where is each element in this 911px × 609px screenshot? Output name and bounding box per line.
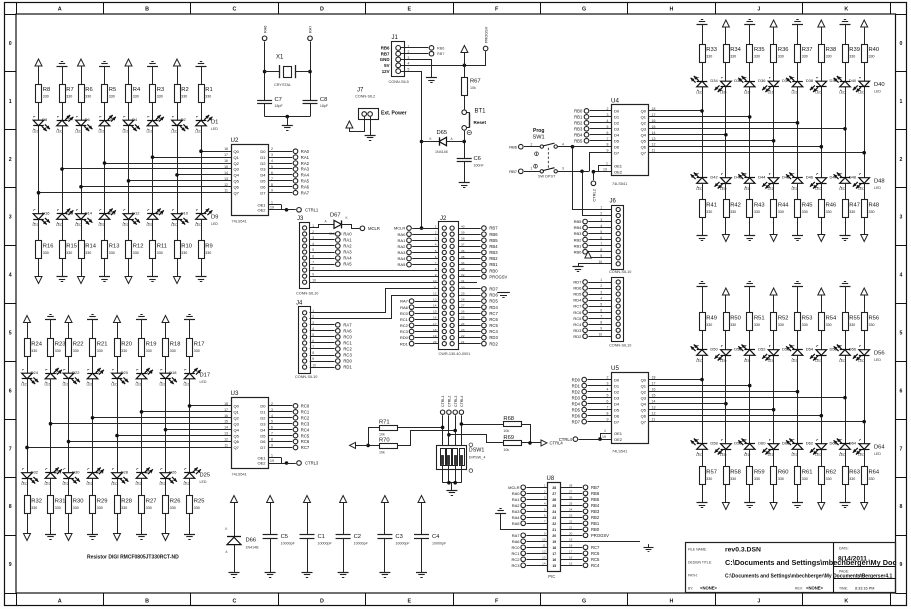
svg-text:7: 7 bbox=[9, 446, 12, 452]
svg-text:D15: D15 bbox=[66, 211, 74, 216]
pin D1 U2 bbox=[260, 153, 309, 160]
svg-text:330: 330 bbox=[194, 506, 200, 510]
ground above R49 bbox=[697, 282, 708, 287]
LED D55 bbox=[830, 345, 851, 364]
svg-text:74LS541: 74LS541 bbox=[232, 473, 247, 477]
wire U8 pin26 RB5 bbox=[561, 496, 600, 502]
wire U8 pin12 RC1 bbox=[511, 550, 547, 556]
svg-text:D52: D52 bbox=[758, 347, 766, 352]
svg-text:LED: LED bbox=[858, 359, 865, 363]
resistor R15 bbox=[60, 241, 77, 259]
svg-text:1: 1 bbox=[435, 225, 437, 229]
svg-text:330: 330 bbox=[133, 95, 139, 99]
ground below R63 bbox=[840, 503, 851, 508]
pin Q2 U4 bbox=[641, 119, 656, 126]
svg-text:D: D bbox=[320, 598, 324, 604]
wire bus U4 Q6 to column 6 bbox=[649, 145, 824, 149]
connector J3 bbox=[296, 216, 318, 295]
wire column bank4 col6 lower bbox=[821, 450, 823, 503]
svg-text:D50: D50 bbox=[710, 347, 718, 352]
connector J5 bbox=[599, 278, 632, 348]
svg-text:PROGSV: PROGSV bbox=[484, 26, 488, 43]
LED D54 bbox=[806, 346, 827, 364]
resistor R5 bbox=[102, 85, 117, 103]
svg-text:RB2: RB2 bbox=[574, 121, 583, 126]
svg-text:D61: D61 bbox=[782, 441, 790, 446]
wire column bank2 col2 upper bbox=[50, 320, 52, 473]
svg-text:R30: R30 bbox=[73, 499, 84, 505]
svg-text:RD6: RD6 bbox=[572, 413, 581, 418]
capacitor C6 bbox=[457, 156, 485, 183]
svg-text:RB6: RB6 bbox=[437, 46, 444, 50]
svg-text:10000pF: 10000pF bbox=[432, 542, 447, 546]
wire column bank1 col3 upper bbox=[81, 66, 83, 214]
svg-text:RC7: RC7 bbox=[573, 304, 582, 309]
svg-text:RD1: RD1 bbox=[400, 341, 409, 346]
svg-text:RC3: RC3 bbox=[343, 353, 352, 358]
wire U8 pin27 RB6 bbox=[561, 490, 600, 496]
pin D0 U3 bbox=[260, 402, 309, 409]
svg-text:R46: R46 bbox=[826, 203, 837, 209]
svg-text:CTRL3: CTRL3 bbox=[305, 461, 319, 466]
svg-text:17: 17 bbox=[569, 550, 573, 554]
svg-text:D40: D40 bbox=[874, 82, 885, 88]
wire J2 pin34 RB1 bbox=[459, 262, 498, 267]
svg-text:H: H bbox=[670, 598, 674, 604]
wire bus U3 Q0 to column 8 bbox=[188, 404, 231, 408]
svg-text:R61: R61 bbox=[802, 470, 813, 476]
svg-text:D5: D5 bbox=[260, 179, 266, 184]
svg-text:330: 330 bbox=[730, 210, 736, 214]
svg-text:330: 330 bbox=[146, 349, 152, 353]
svg-text:19: 19 bbox=[270, 206, 274, 210]
svg-text:D0: D0 bbox=[614, 377, 620, 382]
svg-text:RA0: RA0 bbox=[512, 491, 521, 496]
svg-text:LED: LED bbox=[123, 130, 130, 134]
svg-text:C6: C6 bbox=[474, 156, 481, 162]
svg-text:D64: D64 bbox=[849, 441, 857, 446]
wire DSW1 to ground bbox=[443, 466, 462, 490]
wire column bank4 col8 lower bbox=[864, 450, 866, 503]
ground U8 pin8 bbox=[495, 509, 506, 514]
wire column bank3 col7 lower bbox=[845, 184, 847, 236]
svg-text:D0: D0 bbox=[260, 149, 266, 154]
svg-text:Q0: Q0 bbox=[641, 377, 647, 382]
LED D13 bbox=[99, 209, 117, 228]
wire bus U5 Q1 to column 3 bbox=[649, 384, 752, 388]
pin Q3 U4 bbox=[641, 125, 656, 132]
svg-text:DIPSW_4: DIPSW_4 bbox=[469, 455, 486, 459]
svg-text:330: 330 bbox=[826, 477, 832, 481]
svg-text:R71: R71 bbox=[379, 419, 390, 425]
LED D46 bbox=[806, 174, 827, 192]
resistor R59 bbox=[747, 467, 765, 485]
svg-text:Q1: Q1 bbox=[641, 115, 647, 120]
resistor R64 bbox=[862, 467, 880, 485]
svg-text:Q6: Q6 bbox=[234, 184, 240, 189]
power arrow below R58 bbox=[722, 503, 729, 510]
net pad RA6 top bbox=[262, 26, 267, 41]
switch SW1 mark 1 bbox=[535, 152, 539, 156]
svg-text:18: 18 bbox=[224, 147, 228, 151]
wire column bank1 col2 lower bbox=[62, 220, 64, 277]
pin Q6 U2 bbox=[224, 183, 240, 190]
svg-text:CTRL1: CTRL1 bbox=[305, 208, 319, 213]
ground below R59 bbox=[744, 503, 755, 508]
svg-text:Q2: Q2 bbox=[641, 121, 647, 126]
svg-text:R12: R12 bbox=[133, 244, 144, 250]
svg-text:C:\Documents and Settings\mbec: C:\Documents and Settings\mbechberger\My… bbox=[725, 573, 892, 579]
svg-text:RB4: RB4 bbox=[591, 503, 600, 508]
resistor R60 bbox=[771, 467, 789, 485]
resistor R22 bbox=[66, 339, 84, 357]
wire column bank2 col2 lower bbox=[50, 479, 52, 535]
LED D22 bbox=[63, 369, 81, 386]
svg-text:1: 1 bbox=[531, 167, 533, 171]
svg-text:12: 12 bbox=[433, 291, 437, 295]
svg-text:9: 9 bbox=[312, 357, 314, 361]
svg-text:C7: C7 bbox=[275, 97, 282, 103]
svg-text:330: 330 bbox=[849, 55, 855, 59]
svg-text:100nF: 100nF bbox=[474, 163, 485, 167]
svg-text:R8: R8 bbox=[43, 87, 50, 93]
pin D4 U4 bbox=[574, 131, 620, 138]
pin D7 U2 bbox=[260, 189, 309, 196]
LED D29 bbox=[87, 468, 105, 487]
svg-text:RC4: RC4 bbox=[301, 427, 310, 432]
svg-text:4: 4 bbox=[600, 296, 602, 300]
svg-text:U5: U5 bbox=[611, 365, 619, 372]
wire U8 pin11 RC0 bbox=[511, 544, 547, 550]
svg-text:RC6: RC6 bbox=[301, 439, 310, 444]
svg-text:D24: D24 bbox=[31, 370, 39, 375]
svg-text:RD1: RD1 bbox=[343, 365, 352, 370]
svg-text:330: 330 bbox=[754, 323, 760, 327]
pin Q3 U3 bbox=[224, 420, 240, 427]
wire column bank1 col6 upper bbox=[152, 66, 154, 214]
svg-text:OE1: OE1 bbox=[614, 164, 623, 169]
LED D33 bbox=[691, 76, 708, 95]
svg-text:10: 10 bbox=[433, 279, 437, 283]
svg-text:RB6: RB6 bbox=[509, 145, 518, 150]
svg-text:D64: D64 bbox=[874, 445, 885, 451]
svg-text:D17: D17 bbox=[200, 373, 211, 379]
wire J3 pin5 to RA3 bbox=[310, 250, 352, 255]
svg-text:8:33:16 PM: 8:33:16 PM bbox=[855, 586, 874, 590]
capacitor C3 bbox=[377, 503, 410, 573]
svg-text:J3: J3 bbox=[297, 216, 304, 222]
wire J2 pin30 RD7 bbox=[459, 287, 499, 292]
pin D2 U3 bbox=[260, 414, 309, 421]
wire column bank1 col3 lower bbox=[81, 220, 83, 277]
svg-text:RC0: RC0 bbox=[400, 311, 409, 316]
svg-text:RB4: RB4 bbox=[489, 244, 498, 249]
pin Q2 U2 bbox=[224, 159, 240, 166]
svg-text:330: 330 bbox=[849, 210, 855, 214]
svg-text:LED: LED bbox=[792, 359, 799, 363]
wire R67 to BT1 bbox=[464, 95, 466, 109]
svg-text:RC4: RC4 bbox=[489, 329, 498, 334]
svg-text:U3: U3 bbox=[231, 390, 239, 397]
IC U8 right pin numbers bbox=[552, 486, 556, 568]
svg-text:9: 9 bbox=[312, 272, 314, 276]
svg-text:PATH:: PATH: bbox=[688, 574, 698, 578]
wire column bank2 col3 upper bbox=[68, 323, 70, 473]
svg-text:4: 4 bbox=[271, 414, 273, 418]
wire U8 pin1 MCLR bbox=[508, 484, 548, 490]
svg-text:330: 330 bbox=[706, 477, 712, 481]
svg-text:330: 330 bbox=[706, 55, 712, 59]
svg-text:SW DPST: SW DPST bbox=[538, 175, 556, 179]
power arrow above R6 bbox=[78, 59, 85, 66]
power arrow below R14 bbox=[78, 277, 85, 284]
wire U8 pin23 RB2 bbox=[561, 514, 600, 520]
power arrow below R12 bbox=[125, 277, 132, 284]
pin D4 U2 bbox=[260, 171, 309, 178]
svg-text:RA7: RA7 bbox=[309, 26, 313, 33]
LED D42 bbox=[710, 174, 731, 192]
svg-text:6: 6 bbox=[312, 254, 314, 258]
resistor R47 bbox=[843, 200, 860, 218]
svg-text:D8: D8 bbox=[42, 117, 48, 122]
svg-text:330: 330 bbox=[205, 95, 211, 99]
wire column bank4 col5 lower bbox=[797, 450, 799, 503]
svg-text:1: 1 bbox=[9, 99, 12, 105]
svg-text:DSW1: DSW1 bbox=[469, 447, 485, 453]
wire J7 pin2 down bbox=[370, 117, 372, 135]
svg-text:LED: LED bbox=[744, 91, 751, 95]
svg-text:Q5: Q5 bbox=[641, 138, 647, 143]
svg-text:R15: R15 bbox=[66, 244, 77, 250]
svg-text:12V: 12V bbox=[382, 69, 390, 74]
wire column bank1 col8 lower bbox=[201, 220, 203, 277]
resistor R33 bbox=[700, 45, 717, 63]
power arrow below R48 bbox=[861, 235, 868, 242]
wire column bank1 col2 upper bbox=[62, 66, 64, 214]
resistor R31 bbox=[48, 496, 66, 514]
net pad CTRL2 DSW bbox=[447, 396, 452, 415]
svg-text:RC7: RC7 bbox=[301, 445, 310, 450]
svg-text:CTRL3: CTRL3 bbox=[454, 396, 458, 407]
LED D59 bbox=[734, 439, 755, 458]
power arrow below R16 bbox=[35, 277, 42, 284]
svg-text:330: 330 bbox=[754, 210, 760, 214]
wire U8 pin25 RB4 bbox=[561, 502, 600, 508]
svg-text:RD7: RD7 bbox=[573, 280, 582, 285]
power arrow below R44 bbox=[770, 235, 777, 242]
resistor R27 bbox=[139, 496, 157, 514]
svg-text:25: 25 bbox=[552, 504, 556, 508]
svg-text:D23: D23 bbox=[54, 370, 62, 375]
svg-text:330: 330 bbox=[826, 55, 832, 59]
crystal X1 bbox=[265, 55, 310, 88]
wire J2 pin33 RB0 bbox=[459, 268, 498, 273]
wire column bank4 col3 upper bbox=[749, 286, 751, 444]
resistor R71 bbox=[379, 419, 398, 436]
svg-text:D7: D7 bbox=[614, 419, 620, 424]
power arrow below R10 bbox=[174, 277, 181, 284]
svg-text:CTRL4: CTRL4 bbox=[550, 441, 564, 446]
wire column bank3 col3 upper bbox=[749, 25, 751, 178]
svg-text:330: 330 bbox=[826, 323, 832, 327]
svg-text:C:\Documents and Settings\mbec: C:\Documents and Settings\mbechberger\My… bbox=[725, 558, 897, 567]
connector J1 bbox=[380, 35, 410, 84]
svg-text:330: 330 bbox=[194, 349, 200, 353]
wire BT1 to node bbox=[462, 131, 466, 159]
svg-text:RB0: RB0 bbox=[574, 109, 583, 114]
svg-text:R63: R63 bbox=[849, 470, 860, 476]
svg-text:16: 16 bbox=[224, 414, 228, 418]
svg-text:2: 2 bbox=[531, 142, 533, 146]
pin Q5 U2 bbox=[224, 177, 240, 184]
svg-text:D7: D7 bbox=[260, 445, 266, 450]
pins OE1 OE2 U2 bbox=[257, 201, 318, 213]
pin D4 U5 bbox=[572, 400, 620, 407]
capacitor C2 bbox=[336, 503, 369, 573]
switch DSW1 bbox=[437, 443, 486, 472]
svg-text:330: 330 bbox=[869, 55, 875, 59]
svg-text:330: 330 bbox=[31, 349, 37, 353]
pin Q0 U2 bbox=[224, 147, 240, 154]
svg-text:RB1: RB1 bbox=[574, 243, 583, 248]
ground J2 RD6 bbox=[497, 293, 510, 298]
net pad MCLR J3 bbox=[360, 226, 380, 231]
svg-text:R24: R24 bbox=[31, 342, 42, 348]
svg-text:330: 330 bbox=[730, 55, 736, 59]
svg-text:D2: D2 bbox=[260, 415, 266, 420]
resistor R54 bbox=[819, 313, 838, 331]
LED D12 bbox=[123, 210, 141, 228]
svg-text:R10: R10 bbox=[181, 244, 192, 250]
label D17 bbox=[200, 373, 211, 384]
resistor R21 bbox=[90, 339, 108, 357]
resistor R51 bbox=[747, 313, 765, 331]
svg-text:330: 330 bbox=[66, 251, 72, 255]
svg-text:330: 330 bbox=[109, 95, 115, 99]
power arrow above R34 bbox=[722, 20, 729, 27]
svg-text:D0: D0 bbox=[614, 109, 620, 114]
svg-text:R49: R49 bbox=[706, 316, 717, 322]
svg-text:R67: R67 bbox=[470, 79, 481, 85]
svg-text:3: 3 bbox=[9, 215, 12, 221]
wire J2 pin40 RB7 bbox=[459, 226, 498, 231]
pin D1 U4 bbox=[574, 113, 620, 120]
svg-text:B: B bbox=[145, 598, 149, 604]
svg-text:5: 5 bbox=[408, 68, 410, 72]
svg-text:330: 330 bbox=[73, 506, 79, 510]
svg-text:OE2: OE2 bbox=[614, 169, 623, 174]
wire U8 pin4 RA2 bbox=[512, 502, 548, 508]
svg-text:RA2: RA2 bbox=[301, 161, 310, 166]
resistor R30 bbox=[66, 496, 84, 514]
ground J7 bbox=[365, 136, 376, 141]
svg-text:2: 2 bbox=[900, 157, 903, 163]
power arrow below R60 bbox=[770, 503, 777, 510]
pin D0 U4 bbox=[574, 107, 620, 114]
wire J2 pin5 RA3 bbox=[398, 250, 439, 255]
svg-text:330: 330 bbox=[778, 477, 784, 481]
LED D36 bbox=[758, 77, 779, 94]
svg-text:RB3: RB3 bbox=[574, 231, 583, 236]
svg-text:J: J bbox=[757, 598, 760, 604]
svg-text:RB0: RB0 bbox=[574, 249, 583, 254]
ground below R11 bbox=[147, 277, 158, 282]
svg-text:R51: R51 bbox=[754, 316, 765, 322]
wire J2 pin23 RC4 bbox=[459, 329, 499, 334]
svg-text:PIC: PIC bbox=[548, 574, 555, 579]
svg-text:D67: D67 bbox=[330, 213, 341, 219]
pin Q6 U5 bbox=[641, 412, 656, 419]
wire bus U3 Q2 to column 4 bbox=[91, 416, 231, 420]
wire J2 pin35 RB2 bbox=[459, 256, 498, 261]
svg-text:RC5: RC5 bbox=[301, 433, 310, 438]
svg-text:rev0.3.DSN: rev0.3.DSN bbox=[725, 547, 761, 554]
svg-text:RA5: RA5 bbox=[343, 262, 352, 267]
svg-text:RC1: RC1 bbox=[343, 341, 352, 346]
pin Q0 U4 bbox=[641, 107, 656, 114]
LED D61 bbox=[782, 439, 803, 458]
svg-text:330: 330 bbox=[706, 323, 712, 327]
svg-text:Q3: Q3 bbox=[234, 421, 240, 426]
svg-text:OE2: OE2 bbox=[614, 437, 623, 442]
svg-text:R6: R6 bbox=[85, 87, 92, 93]
pushbutton BT1 bbox=[462, 109, 487, 135]
wire J4 pin2 to J2 pin12 bbox=[310, 296, 439, 319]
svg-text:Q1: Q1 bbox=[641, 383, 647, 388]
wire SW1 pole2 to J6 pin2 bbox=[583, 172, 612, 216]
LED D2 bbox=[171, 116, 188, 133]
svg-text:D20: D20 bbox=[121, 370, 129, 375]
svg-text:9: 9 bbox=[271, 189, 273, 193]
svg-text:R37: R37 bbox=[802, 47, 813, 53]
LED D58 bbox=[710, 440, 731, 458]
LED D20 bbox=[111, 369, 129, 386]
svg-text:R38: R38 bbox=[826, 47, 837, 53]
label D48 bbox=[874, 179, 885, 190]
ground below R47 bbox=[840, 236, 851, 241]
ground above R19 bbox=[136, 315, 147, 320]
svg-text:330: 330 bbox=[43, 251, 49, 255]
wire J5 pin8 to RC4 bbox=[573, 322, 604, 327]
svg-text:330: 330 bbox=[181, 95, 187, 99]
wire bus U4 Q3 to column 7 bbox=[649, 127, 847, 131]
svg-text:D3: D3 bbox=[614, 395, 620, 400]
svg-text:RB4: RB4 bbox=[574, 132, 583, 137]
ground above R39 bbox=[840, 20, 851, 25]
wire J3 pin4 to RA2 bbox=[310, 244, 352, 249]
grid row numbers left bbox=[9, 41, 12, 568]
resistor R63 bbox=[843, 467, 860, 485]
wire J1 pin5 12V rail bbox=[401, 72, 424, 230]
resistor R8 bbox=[36, 85, 51, 103]
svg-text:R17: R17 bbox=[194, 342, 205, 348]
wire bus U5 Q5 to column 4 bbox=[649, 408, 776, 412]
resistor R58 bbox=[724, 467, 741, 485]
svg-text:U8: U8 bbox=[547, 476, 555, 482]
svg-text:Q3: Q3 bbox=[641, 395, 647, 400]
wire bus U3 Q7 to column 1 bbox=[25, 446, 231, 450]
connector J4 bbox=[295, 301, 317, 379]
wire column bank2 col6 upper bbox=[141, 320, 143, 473]
svg-text:D12: D12 bbox=[132, 211, 140, 216]
svg-text:D59: D59 bbox=[734, 441, 742, 446]
svg-text:12: 12 bbox=[652, 143, 656, 147]
svg-text:LED: LED bbox=[815, 91, 822, 95]
svg-text:H: H bbox=[670, 7, 674, 13]
pin D1 U5 bbox=[572, 382, 620, 389]
power arrow above R40 bbox=[861, 20, 868, 27]
ground above R21 bbox=[87, 315, 98, 320]
